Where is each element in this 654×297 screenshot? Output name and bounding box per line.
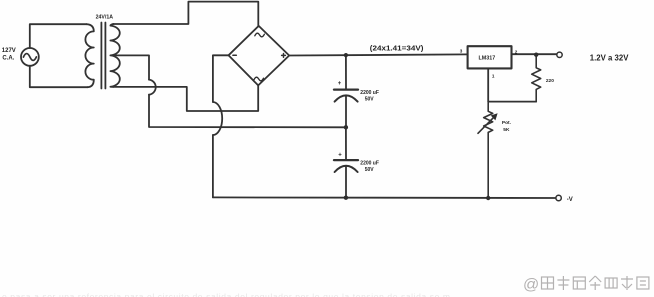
svg-text:220: 220 (546, 78, 554, 84)
svg-text:LM317: LM317 (479, 56, 496, 62)
svg-text:24V/1A: 24V/1A (96, 14, 113, 20)
svg-text:Pot.: Pot. (502, 120, 511, 126)
svg-text:2: 2 (515, 50, 518, 55)
svg-text:50V: 50V (365, 167, 375, 173)
svg-text:(24x1.41=34V): (24x1.41=34V) (370, 43, 424, 52)
svg-text:-V: -V (567, 197, 573, 203)
svg-text:2200 uF: 2200 uF (360, 90, 379, 96)
svg-text:2200 uF: 2200 uF (360, 160, 379, 166)
svg-text:5K: 5K (503, 127, 510, 133)
svg-text:1: 1 (492, 74, 495, 79)
svg-text:@: @ (523, 277, 539, 294)
svg-text:3: 3 (460, 48, 463, 53)
svg-text:50V: 50V (365, 97, 375, 103)
svg-text:1.2V a 32V: 1.2V a 32V (590, 53, 629, 63)
svg-text:+: + (338, 152, 342, 158)
svg-text:127V: 127V (2, 48, 16, 54)
svg-text:+: + (338, 81, 342, 87)
svg-text:C.A.: C.A. (2, 55, 14, 61)
svg-text:e pasa a ser una referencia pa: e pasa a ser una referencia para el circ… (2, 292, 451, 297)
